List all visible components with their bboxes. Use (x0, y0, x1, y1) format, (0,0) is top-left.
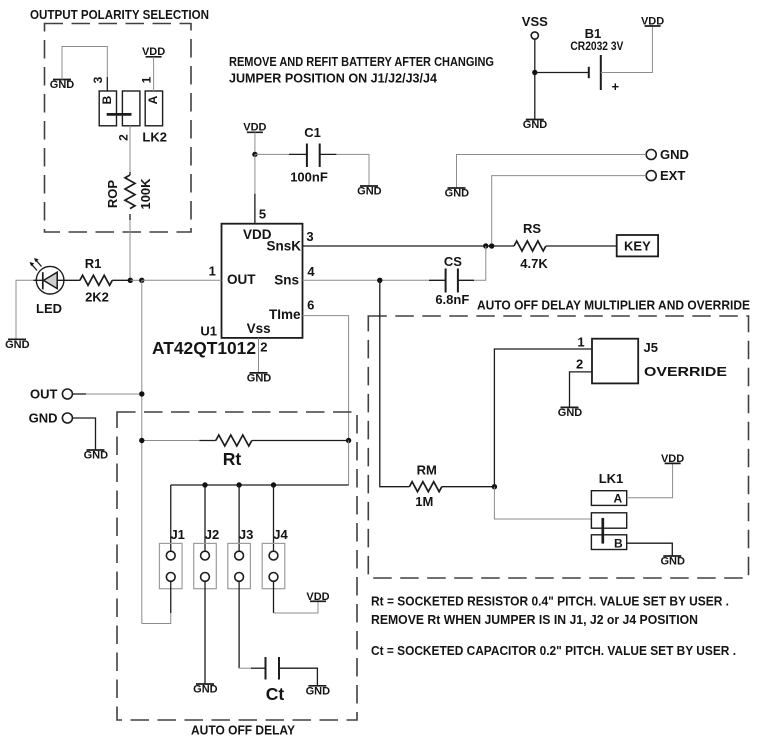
capacitor C1 100nF (290, 125, 328, 185)
wire ROP to OUT node (129, 214, 131, 220)
svg-text:GND: GND (247, 372, 272, 384)
ground (GND terminal) (84, 450, 109, 462)
wire jumper top rail (171, 484, 349, 486)
resistor Rt (216, 435, 252, 469)
svg-text:2: 2 (117, 134, 131, 141)
jumper J4 (262, 527, 288, 589)
svg-text:OUT: OUT (227, 272, 256, 287)
svg-text:KEY: KEY (624, 239, 651, 254)
svg-text:100K: 100K (138, 178, 153, 210)
junction OUT terminal (139, 391, 144, 396)
block KEY (617, 235, 658, 256)
jumper J2 (194, 527, 220, 589)
svg-text:B: B (100, 95, 114, 104)
ground (Ct) (306, 685, 331, 697)
junction SnsK/CS (483, 243, 488, 248)
svg-text:Rt: Rt (223, 449, 242, 469)
svg-text:TIme: TIme (269, 307, 301, 322)
svg-text:GND: GND (558, 407, 583, 419)
svg-text:LED: LED (36, 301, 62, 316)
svg-text:1: 1 (577, 335, 584, 350)
wire LK2 pin 2 to ROP (129, 126, 131, 172)
wire dropper J4 (273, 485, 275, 551)
wire C1 to GND (320, 153, 337, 155)
svg-text:GND: GND (660, 556, 685, 568)
svg-text:C1: C1 (304, 125, 321, 140)
svg-text:GND: GND (523, 119, 548, 131)
svg-text:Ct = SOCKETED CAPACITOR 0.2" P: Ct = SOCKETED CAPACITOR 0.2" PITCH. VALU… (371, 643, 736, 658)
svg-text:J3: J3 (239, 527, 253, 542)
resistor RS 4.7K (514, 221, 548, 271)
svg-text:AT42QT1012: AT42QT1012 (152, 338, 256, 358)
junction rail J3 (236, 482, 241, 487)
junction Rt left (139, 438, 144, 443)
junction rail J2 (202, 482, 207, 487)
resistor RM 1M (409, 463, 441, 510)
jumper LK2 box A (145, 91, 162, 126)
wire LK1 A to VDD (627, 463, 673, 497)
wire node to C1 (255, 153, 289, 155)
wire GND terminal to ground (72, 418, 95, 450)
jumper J1 (159, 527, 184, 589)
wire OUT vertical run (141, 280, 143, 623)
svg-text:Vss: Vss (247, 321, 271, 336)
svg-text:ROP: ROP (105, 180, 120, 209)
svg-text:4: 4 (307, 264, 315, 279)
svg-text:J5: J5 (644, 340, 658, 355)
VDD symbol (C1) (243, 122, 266, 134)
wire dropper J2 (204, 485, 206, 551)
VDD symbol (battery) (641, 16, 664, 28)
wire U1 pin 2 to GND (258, 338, 260, 373)
wire OUT terminal to node (72, 393, 86, 395)
dashed box AUTO OFF DELAY MULTIPLIER AND OVERRIDE (368, 316, 748, 578)
svg-text:A: A (146, 95, 160, 104)
svg-text:Sns: Sns (274, 273, 299, 288)
svg-text:U1: U1 (200, 323, 217, 338)
junction RM/J5/LK1 (492, 484, 497, 489)
svg-text:J1: J1 (170, 527, 184, 542)
svg-text:6.8nF: 6.8nF (435, 292, 469, 307)
svg-text:J4: J4 (273, 527, 288, 542)
wire VSS node to battery (535, 72, 589, 74)
svg-text:OUT: OUT (30, 387, 58, 402)
svg-text:B: B (614, 537, 623, 551)
svg-text:3: 3 (91, 76, 105, 83)
svg-text:A: A (613, 491, 622, 505)
IC U1 AT42QT1012 body (222, 224, 303, 338)
svg-text:CS: CS (444, 254, 462, 269)
svg-text:2: 2 (260, 340, 267, 355)
svg-text:J2: J2 (205, 527, 219, 542)
ground (U1 Vss) (247, 372, 272, 384)
wire VDD to LK2 pin 1 (153, 57, 155, 91)
ground (J5 pin 2) (558, 407, 583, 419)
svg-text:GND: GND (660, 147, 689, 162)
battery B1 CR2032 3V (570, 26, 623, 94)
svg-text:3: 3 (306, 229, 313, 244)
junction OUT vertical (139, 278, 144, 283)
svg-text:REMOVE AND REFIT BATTERY AFTER: REMOVE AND REFIT BATTERY AFTER CHANGING (229, 54, 494, 69)
wire node to U1 pin 1 (OUT) (142, 279, 222, 281)
junction VDD/C1/pin5 (252, 152, 257, 157)
jumper LK2 box B (99, 91, 116, 126)
dashed box OUTPUT POLARITY SELECTION (45, 24, 192, 233)
wire battery + to VDD (601, 26, 653, 73)
svg-text:JUMPER POSITION ON J1/J2/J3/J4: JUMPER POSITION ON J1/J2/J3/J4 (229, 71, 438, 86)
wire U1 pin 6 Time net (303, 316, 349, 441)
jumper LK2 shunt bar (107, 113, 132, 116)
wire dropper J1 (170, 485, 172, 551)
wire VDD to node (254, 132, 256, 154)
wire CS to SnsK node (458, 279, 474, 281)
jumper LK1 box B (591, 535, 626, 550)
wire EXT terminal to SnsK node (492, 176, 647, 244)
svg-text:GND: GND (357, 186, 382, 198)
wire R1 to node (112, 279, 130, 281)
junction ROP/OUT (128, 278, 133, 283)
svg-text:LK1: LK1 (599, 471, 624, 486)
svg-text:5: 5 (259, 207, 266, 222)
svg-text:OUTPUT POLARITY SELECTION: OUTPUT POLARITY SELECTION (30, 7, 209, 22)
ground (GND terminal top) (445, 188, 470, 200)
wire U1 pin 3 SnsK net (303, 245, 515, 247)
svg-text:REMOVE Rt WHEN JUMPER IS IN J1: REMOVE Rt WHEN JUMPER IS IN J1, J2 or J4… (371, 612, 698, 627)
wire Ct to GND (279, 668, 317, 686)
resistor R1 2K2 (80, 256, 112, 305)
wire Time node down (348, 441, 350, 486)
ground (battery) (523, 119, 548, 131)
jumper LK2 middle box (122, 91, 139, 126)
junction rail J4 (271, 482, 276, 487)
jumper LK1 box A (591, 491, 626, 506)
svg-text:RS: RS (523, 221, 541, 236)
ground (C1) (357, 186, 382, 198)
svg-text:OVERRIDE: OVERRIDE (644, 364, 727, 379)
svg-text:GND: GND (306, 685, 331, 697)
terminal GND (top right) (646, 150, 656, 160)
svg-text:CR2032 3V: CR2032 3V (570, 39, 623, 53)
wire node to U1 pin 5 (254, 154, 256, 193)
junction VSS/battery (532, 70, 537, 75)
svg-text:AUTO OFF DELAY MULTIPLIER AND: AUTO OFF DELAY MULTIPLIER AND OVERRIDE (477, 298, 750, 313)
wire Rt to Time node (252, 440, 349, 442)
svg-text:+: + (612, 79, 620, 94)
svg-text:EXT: EXT (660, 168, 685, 183)
svg-text:Ct: Ct (266, 684, 285, 704)
svg-text:1M: 1M (415, 494, 433, 509)
wire Sns node down to RM (380, 280, 410, 486)
wire J3 bottom to Ct (238, 581, 240, 668)
LED D1 (30, 258, 80, 316)
terminal EXT (646, 171, 656, 181)
dashed box AUTO OFF DELAY (117, 412, 357, 720)
jumper J3 (228, 527, 254, 589)
svg-text:4.7K: 4.7K (520, 256, 548, 271)
ground (LED) (5, 339, 30, 351)
wire node to Rt (142, 440, 200, 442)
connector J5 (592, 339, 727, 384)
wire LK1 B to GND (627, 543, 673, 556)
capacitor CS 6.8nF (435, 254, 469, 307)
ground (LK1 B) (660, 556, 685, 568)
VDD symbol (LK2 pin 1) (142, 46, 165, 58)
wire dropper J3 (238, 485, 240, 551)
jumper LK1 middle box (591, 513, 626, 528)
resistor ROP 100K (125, 175, 135, 209)
wire J4 bottom to VDD (273, 581, 275, 613)
svg-text:R1: R1 (85, 256, 102, 271)
svg-text:2: 2 (576, 357, 583, 372)
wire J1 bottom to OUT vertical (170, 581, 172, 613)
svg-text:100nF: 100nF (290, 170, 328, 185)
wire node to node (130, 279, 142, 281)
svg-text:GND: GND (445, 188, 470, 200)
wire GND terminal to ground symbol (457, 155, 647, 189)
wire LED to GND (16, 280, 34, 339)
svg-text:LK2: LK2 (142, 130, 167, 145)
wire VSS down to GND (534, 39, 536, 119)
ground (LK2 pin 3) (50, 79, 75, 91)
wire node down to LK1 (494, 487, 591, 519)
svg-text:GND: GND (5, 339, 30, 351)
svg-text:6: 6 (307, 298, 314, 313)
junction SnsK/EXT (489, 243, 494, 248)
VDD symbol (LK1) (661, 453, 684, 465)
svg-text:GND: GND (29, 411, 58, 426)
VDD symbol (J4) (306, 591, 329, 603)
svg-text:1: 1 (140, 76, 154, 83)
svg-text:VSS: VSS (522, 14, 548, 29)
svg-text:GND: GND (193, 684, 218, 696)
svg-text:GND: GND (50, 79, 75, 91)
wire J2 bottom to GND (204, 581, 206, 684)
svg-text:RM: RM (417, 463, 437, 478)
capacitor Ct (266, 657, 285, 704)
junction Sns/RM (377, 278, 382, 283)
svg-text:1: 1 (209, 264, 216, 279)
wire J5 pin 2 to GND (570, 372, 593, 408)
junction Rt/Time (346, 438, 351, 443)
wire GND to LK2 pin 3 (62, 47, 107, 80)
svg-text:SnsK: SnsK (266, 238, 301, 253)
wire U1 pin 4 Sns net (303, 279, 430, 281)
ground (J2) (193, 684, 218, 696)
wire RM to node (442, 486, 495, 488)
svg-text:Rt = SOCKETED RESISTOR 0.4" PI: Rt = SOCKETED RESISTOR 0.4" PITCH. VALUE… (371, 594, 729, 609)
jumper LK1 shunt bar (601, 518, 604, 544)
svg-text:GND: GND (84, 450, 109, 462)
svg-text:2K2: 2K2 (85, 290, 109, 305)
wire RS to KEY (546, 245, 617, 247)
svg-text:AUTO OFF DELAY: AUTO OFF DELAY (191, 723, 295, 738)
wire node up to J5 pin 1 (494, 349, 592, 487)
wire lead into LK2 pin 3 (106, 77, 108, 91)
